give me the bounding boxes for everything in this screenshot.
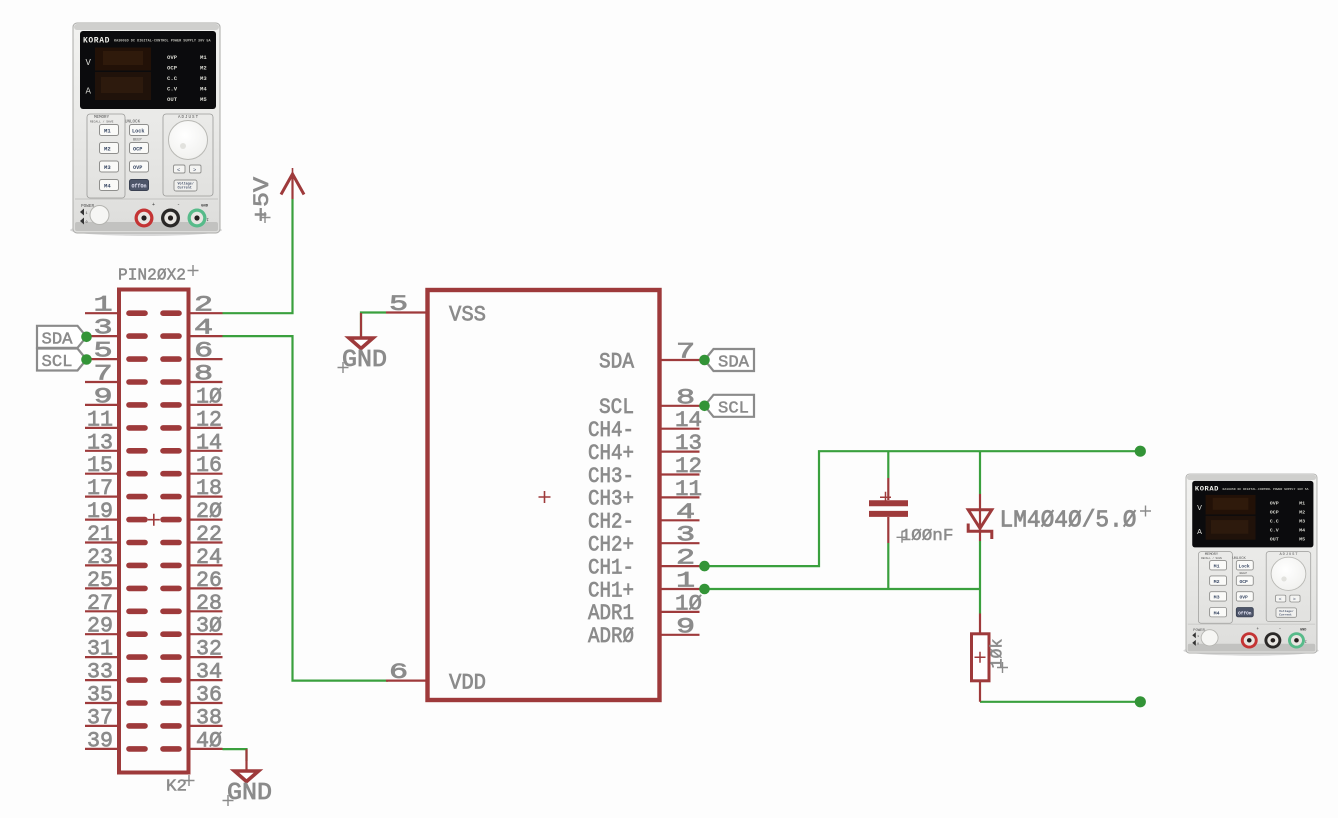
resistor R1 10k [972, 614, 1009, 702]
pin 4 stub [163, 333, 179, 339]
svg-text:9: 9 [94, 385, 113, 410]
svg-text:12: 12 [675, 454, 702, 479]
pin 11 line [85, 427, 119, 429]
svg-text:ADRØ: ADRØ [588, 624, 634, 649]
svg-text:SDA: SDA [718, 354, 750, 373]
pin 2 CH1- [660, 565, 700, 567]
svg-text:36: 36 [196, 683, 222, 708]
pin 28 stub [163, 608, 179, 614]
pin 12 line [189, 427, 223, 429]
pin 40 stub [163, 746, 179, 752]
pin 1 CH1+ [660, 588, 700, 590]
svg-text:5: 5 [389, 292, 408, 317]
svg-text:8: 8 [194, 362, 213, 387]
pin 31 line [85, 656, 119, 658]
svg-text:SCL: SCL [718, 399, 749, 418]
pin 35 stub [129, 700, 145, 706]
svg-text:31: 31 [87, 637, 113, 662]
pin 39 line [85, 748, 119, 750]
svg-text:23: 23 [87, 545, 113, 570]
pin 25 line [85, 587, 119, 589]
pin 12 CH3- [660, 473, 700, 475]
pin 18 line [189, 496, 223, 498]
svg-text:24: 24 [196, 545, 222, 570]
pin 26 stub [163, 586, 179, 592]
pin 32 line [189, 656, 223, 658]
svg-text:GND: GND [342, 347, 387, 374]
pin 6 line [189, 358, 223, 360]
svg-text:CH2+: CH2+ [588, 533, 634, 558]
pin 1 stub [129, 310, 145, 316]
pin 34 stub [163, 677, 179, 683]
svg-text:SCL: SCL [42, 353, 73, 372]
wire pin4 to VDD [223, 336, 389, 680]
pin 8 line [189, 381, 223, 383]
svg-text:34: 34 [196, 660, 222, 685]
node endpoint top right [1135, 446, 1146, 457]
pin 9 ADR0 [660, 634, 700, 636]
photo: KORAD power supply (top-left) [70, 23, 222, 236]
svg-text:33: 33 [87, 660, 113, 685]
pin 34 line [189, 679, 223, 681]
svg-text:13: 13 [675, 431, 702, 456]
svg-text:27: 27 [87, 591, 113, 616]
pin 4 line [189, 335, 223, 337]
svg-text:6: 6 [389, 660, 408, 685]
svg-text:3: 3 [94, 316, 113, 341]
svg-text:39: 39 [87, 728, 113, 753]
svg-text:17: 17 [87, 476, 113, 501]
svg-text:1Øk: 1Øk [989, 639, 1008, 669]
wire resistor bottom to endpoint [980, 701, 1140, 703]
pin 25 stub [129, 586, 145, 592]
net flag SDA (IC pin 7) [699, 349, 754, 373]
pin 40 line [189, 748, 223, 750]
pin 5 VSS [386, 311, 428, 313]
wire diode branch [979, 451, 981, 494]
svg-text:SDA: SDA [599, 349, 635, 374]
svg-text:4: 4 [676, 500, 695, 525]
pin 16 line [189, 473, 223, 475]
junction CH1- pin [699, 561, 710, 572]
pin 11 stub [129, 425, 145, 431]
junction CH1+ pin [699, 584, 710, 595]
pin 14 CH4- [660, 428, 700, 430]
svg-text:SDA: SDA [42, 330, 74, 349]
pin 39 stub [129, 746, 145, 752]
pin 31 stub [129, 654, 145, 660]
pin 20 stub [163, 517, 179, 523]
pin 26 line [189, 587, 223, 589]
svg-text:CH4-: CH4- [588, 418, 634, 443]
svg-text:PIN2ØX2: PIN2ØX2 [118, 267, 186, 286]
svg-text:9: 9 [676, 615, 695, 640]
pin 21 stub [129, 540, 145, 546]
pin 36 stub [163, 700, 179, 706]
svg-text:1Ø: 1Ø [675, 591, 702, 616]
IC U1 [386, 290, 702, 700]
net flag SCL (pin 5) [37, 349, 92, 373]
svg-text:12: 12 [196, 407, 222, 432]
svg-text:37: 37 [87, 705, 113, 730]
svg-text:13: 13 [87, 430, 113, 455]
pin 35 line [85, 702, 119, 704]
svg-text:1: 1 [94, 293, 113, 318]
pin 32 stub [163, 654, 179, 660]
connector K2 PIN20X2 [85, 265, 223, 797]
pin 37 stub [129, 723, 145, 729]
svg-text:28: 28 [196, 591, 222, 616]
pin 6 stub [163, 356, 179, 362]
svg-text:22: 22 [196, 522, 222, 547]
pin 29 stub [129, 631, 145, 637]
svg-text:26: 26 [196, 568, 222, 593]
pin 21 line [85, 541, 119, 543]
pin 3 line [85, 335, 119, 337]
pin 13 CH4+ [660, 451, 700, 453]
svg-text:7: 7 [94, 362, 113, 387]
pin 5 stub [129, 356, 145, 362]
pin 13 stub [129, 448, 145, 454]
pin 30 stub [163, 631, 179, 637]
pin 10 stub [163, 402, 179, 408]
svg-text:CH1-: CH1- [588, 555, 634, 580]
svg-text:CH4+: CH4+ [588, 441, 634, 466]
wire CH1- net to top rail [700, 451, 1141, 566]
pin 19 stub [129, 517, 145, 523]
pin 38 stub [163, 723, 179, 729]
svg-text:1Ø: 1Ø [196, 384, 222, 409]
pin 33 stub [129, 677, 145, 683]
svg-text:GND: GND [227, 780, 272, 807]
svg-text:VSS: VSS [449, 303, 486, 328]
svg-text:21: 21 [87, 522, 113, 547]
svg-text:11: 11 [87, 407, 113, 432]
pin 23 line [85, 564, 119, 566]
svg-text:4Ø: 4Ø [196, 728, 222, 753]
pin 3 stub [129, 333, 145, 339]
pin 14 stub [163, 448, 179, 454]
svg-text:3: 3 [676, 523, 695, 548]
svg-text:1ØØnF: 1ØØnF [901, 527, 954, 546]
value 100nF [897, 532, 908, 543]
capacitor C1 100nF [869, 478, 954, 546]
svg-text:19: 19 [87, 499, 113, 524]
pin 4 CH2- [660, 519, 700, 521]
svg-text:32: 32 [196, 637, 222, 662]
svg-text:15: 15 [87, 453, 113, 478]
node endpoint bottom right [1135, 696, 1146, 707]
svg-text:CH3+: CH3+ [588, 487, 634, 512]
pin 6 VDD [386, 679, 428, 681]
connector origin cross [148, 514, 160, 526]
pin 22 stub [163, 540, 179, 546]
svg-text:2: 2 [194, 293, 213, 318]
pin 36 line [189, 702, 223, 704]
svg-text:2Ø: 2Ø [196, 499, 222, 524]
svg-text:14: 14 [675, 408, 702, 433]
svg-text:CH1+: CH1+ [588, 578, 634, 603]
pin 3 CH2+ [660, 542, 700, 544]
svg-text:16: 16 [196, 453, 222, 478]
pin 30 line [189, 633, 223, 635]
svg-text:CH2-: CH2- [588, 510, 634, 535]
+5V supply symbol [250, 168, 304, 223]
pin 24 line [189, 564, 223, 566]
svg-text:35: 35 [87, 683, 113, 708]
svg-text:2: 2 [676, 546, 695, 571]
svg-text:6: 6 [194, 339, 213, 364]
pin 7 stub [129, 379, 145, 385]
pin 15 line [85, 473, 119, 475]
svg-text:LM4Ø4Ø/5.Ø: LM4Ø4Ø/5.Ø [1000, 508, 1137, 535]
pin 37 line [85, 725, 119, 727]
pin 2 stub [163, 310, 179, 316]
pin 7 line [85, 381, 119, 383]
svg-text:+5V: +5V [250, 176, 275, 222]
svg-text:CH3-: CH3- [588, 464, 634, 489]
wire pin2 to +5V [223, 199, 293, 313]
svg-text:SCL: SCL [599, 395, 634, 420]
pin 5 line [85, 358, 119, 360]
svg-text:1: 1 [676, 569, 695, 594]
svg-text:18: 18 [196, 476, 222, 501]
pin 16 stub [163, 471, 179, 477]
pin 13 line [85, 450, 119, 452]
pin 10 line [189, 404, 223, 406]
wire pin40 to GND [223, 749, 247, 761]
pin 33 line [85, 679, 119, 681]
pin 22 line [189, 541, 223, 543]
pin 2 line [189, 312, 223, 314]
svg-text:7: 7 [676, 340, 695, 365]
IC origin cross [539, 491, 551, 503]
svg-text:4: 4 [194, 316, 213, 341]
photo: KORAD power supply (right) [1183, 474, 1318, 656]
svg-text:14: 14 [196, 430, 222, 455]
net flag SCL (IC pin 8) [699, 395, 754, 419]
svg-text:ADR1: ADR1 [588, 601, 634, 626]
pin 15 stub [129, 471, 145, 477]
diode D1 LM4040/5.0 shunt reference [968, 494, 1151, 541]
pin 18 stub [163, 494, 179, 500]
pin 8 stub [163, 379, 179, 385]
pin 17 line [85, 496, 119, 498]
svg-text:VDD: VDD [449, 671, 486, 696]
svg-text:11: 11 [675, 477, 702, 502]
wire CH1+ net [700, 588, 981, 590]
wire capacitor branch [887, 451, 889, 478]
svg-text:29: 29 [87, 614, 113, 639]
pin 24 stub [163, 563, 179, 569]
svg-text:3Ø: 3Ø [196, 614, 222, 639]
pin 20 line [189, 518, 223, 520]
pin 1 line [85, 312, 119, 314]
svg-text:25: 25 [87, 568, 113, 593]
pin 23 stub [129, 563, 145, 569]
pin 10 ADR1 [660, 611, 700, 613]
pin 12 stub [163, 425, 179, 431]
pin 14 line [189, 450, 223, 452]
ground symbol at pin40 [223, 749, 273, 807]
pin 11 CH3+ [660, 496, 700, 498]
pin 9 stub [129, 402, 145, 408]
pin 29 line [85, 633, 119, 635]
net flag SDA (pin 3) [37, 326, 92, 350]
pin 17 stub [129, 494, 145, 500]
svg-text:5: 5 [94, 339, 113, 364]
pin 38 line [189, 725, 223, 727]
pin 9 line [85, 404, 119, 406]
pin 27 stub [129, 608, 145, 614]
pin 28 line [189, 610, 223, 612]
wire VSS pin5 to GND [361, 313, 386, 338]
svg-text:38: 38 [196, 705, 222, 730]
ground symbol at VSS [338, 313, 388, 374]
pin 8 SCL [660, 405, 700, 407]
pin 7 SDA [660, 359, 700, 361]
pin 19 line [85, 518, 119, 520]
svg-text:8: 8 [676, 386, 695, 411]
pin 27 line [85, 610, 119, 612]
